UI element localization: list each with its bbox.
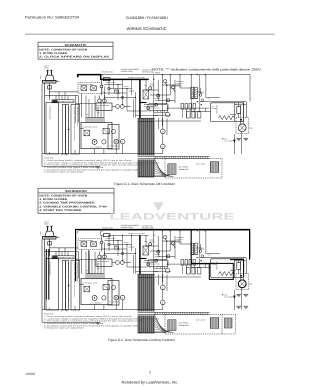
svg-text:2. CLOCK APPEARS ON DISPLAY: 2. CLOCK APPEARS ON DISPLAY — [39, 56, 109, 59]
key panel enclosure extension (fig 2) — [222, 314, 236, 334]
svg-text:NOTE: CONDITION OF OVEN: NOTE: CONDITION OF OVEN — [39, 48, 87, 51]
energized relay branch — [88, 250, 90, 273]
svg-text:LEADVENTURE: LEADVENTURE — [110, 211, 235, 221]
svg-text:3. VARIABLE COOKING CONTROL 'P: 3. VARIABLE COOKING CONTROL 'P-HI' — [39, 205, 108, 208]
svg-text:4. START PAD TOUCHED: 4. START PAD TOUCHED — [39, 209, 81, 212]
energized circuit path (heavy) - hot side — [76, 229, 250, 281]
svg-text:8: 8 — [149, 370, 151, 374]
svg-text:1. DOOR CLOSED: 1. DOOR CLOSED — [39, 52, 67, 55]
svg-text:GLBM188H / PLEMV188H: GLBM188H / PLEMV188H — [126, 16, 168, 20]
energized circuit path (heavy) - transformer feed — [191, 229, 209, 263]
svg-text:Rendered by LeadVenture, Inc.: Rendered by LeadVenture, Inc. — [122, 380, 179, 384]
svg-text:WIRING SCHEMATIC: WIRING SCHEMATIC — [127, 26, 167, 31]
svg-text:1. DOOR CLOSED: 1. DOOR CLOSED — [39, 198, 67, 201]
figure 1 schematic (off condition) — [39, 65, 253, 178]
energized cord conductors — [46, 249, 49, 300]
H.V. transformer T2 energized outline — [209, 263, 233, 279]
note box 2 - schematic condition (cooking) — [38, 188, 114, 213]
svg-text:Figure D-1. Oven Schematic-Off: Figure D-1. Oven Schematic-Off Condition — [114, 182, 175, 186]
energized circuit path (heavy) - H.V. loop — [230, 260, 244, 277]
header rule — [25, 33, 275, 35]
svg-text:SCHEMATIC: SCHEMATIC — [65, 43, 87, 47]
svg-text:Figure D-2. Oven Schematic-Coo: Figure D-2. Oven Schematic-Cooking Condi… — [108, 338, 175, 342]
magnetron MG1 energized — [238, 280, 246, 288]
svg-text:NOTE: CONDITION OF OVEN: NOTE: CONDITION OF OVEN — [39, 194, 87, 197]
svg-text:2. COOKING TIME PROGRAMMED: 2. COOKING TIME PROGRAMMED — [39, 202, 94, 205]
svg-text:09/08: 09/08 — [26, 372, 36, 376]
ground - magnetron filament circuit (fig 2) — [236, 306, 248, 308]
svg-text:Publication No: 5995523734: Publication No: 5995523734 — [25, 16, 79, 20]
watermark logo mark — [153, 202, 163, 211]
svg-text:NOTE: “*” indicates components: NOTE: “*” indicates components with pote… — [152, 67, 262, 71]
figure 2 schematic (cooking condition) — [39, 221, 253, 334]
wire - main hot bus heavy (fig 1) — [78, 75, 149, 80]
note box 1 - schematic condition (off) — [38, 42, 113, 59]
svg-text:SCHEMATIC: SCHEMATIC — [65, 189, 87, 193]
